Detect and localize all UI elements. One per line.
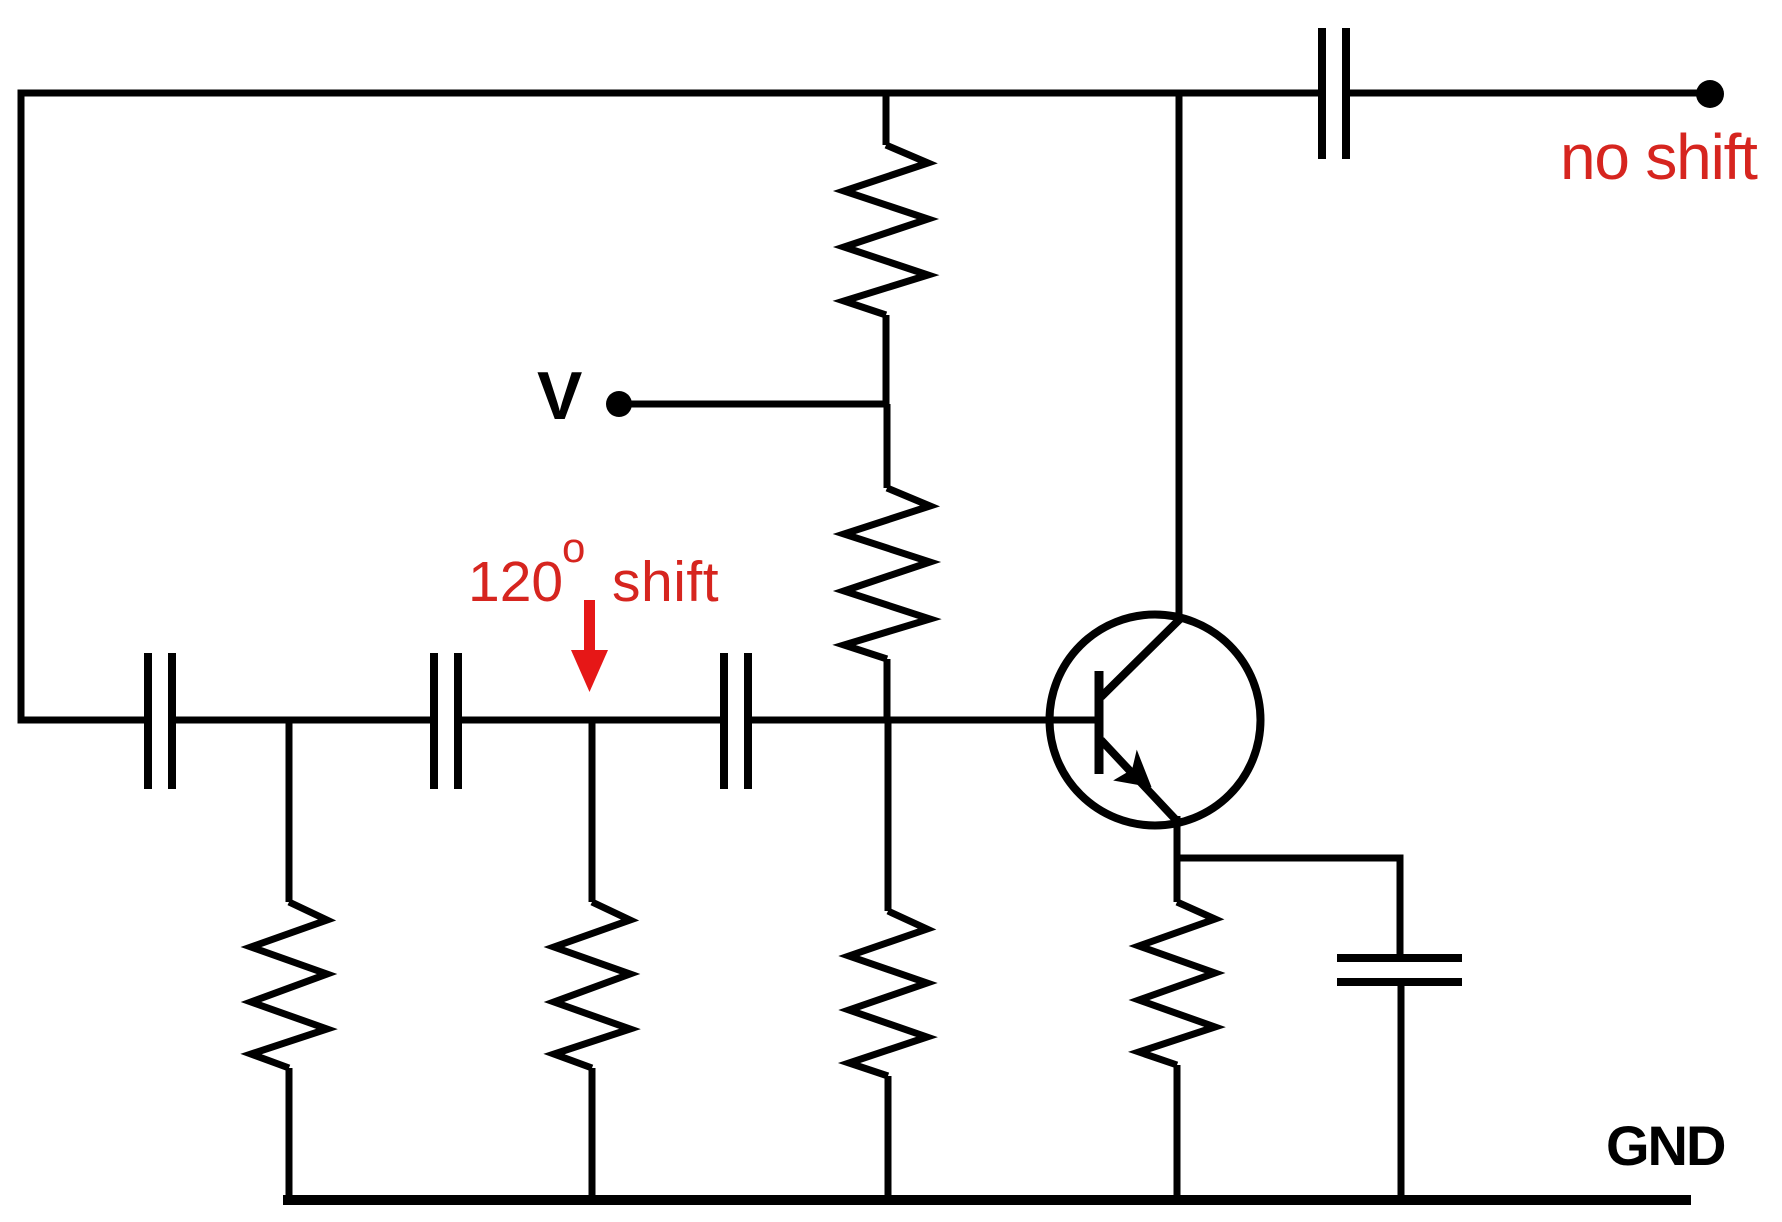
- wire: R1 to ground: [286, 1068, 293, 1200]
- resistor R3: [849, 911, 927, 1076]
- capacitor C5 top plate: [1337, 954, 1462, 962]
- wire: node C lead down to R3: [885, 717, 892, 911]
- wire: base rail C2 to C3: [462, 717, 720, 724]
- capacitor C4 (output coupling) left plate: [1318, 28, 1326, 159]
- resistor R5 (lower bias divider): [844, 488, 930, 659]
- svg-text:o: o: [562, 524, 585, 571]
- node output terminal dot: [1696, 80, 1724, 108]
- capacitor C5 bottom plate: [1337, 978, 1462, 986]
- wire: base rail C3 to transistor base: [752, 717, 1095, 724]
- node V terminal dot: [606, 391, 632, 417]
- transistor Q1 emitter diagonal: [1101, 740, 1176, 820]
- transistor Q1 collector diagonal: [1101, 619, 1180, 697]
- svg-text:no shift: no shift: [1560, 121, 1758, 193]
- svg-text:120: 120: [468, 550, 563, 614]
- wire: emitter to bypass capacitor C5: [1177, 858, 1400, 954]
- resistor R2: [554, 902, 630, 1068]
- wire: base rail C1 to C2: [176, 717, 430, 724]
- transistor Q1 body circle: [1050, 615, 1261, 826]
- wire: collector to top rail: [1176, 93, 1183, 622]
- wire: C5 to ground: [1398, 986, 1405, 1200]
- arrow 120 shift pointer (red): [571, 600, 608, 692]
- svg-text:shift: shift: [612, 550, 719, 614]
- label 120 degree shift (red): [468, 121, 1758, 614]
- capacitor C3 right plate: [744, 653, 752, 789]
- capacitor C2 left plate: [430, 653, 438, 789]
- capacitor C1 left plate: [144, 653, 152, 789]
- capacitor C2 right plate: [454, 653, 462, 789]
- capacitor C3 left plate: [720, 653, 728, 789]
- ground bus: [283, 1195, 1691, 1205]
- wire: R4 to node V: [883, 315, 890, 404]
- resistor R4 (upper bias divider): [844, 145, 928, 315]
- transistor Q1 emitter arrowhead: [1116, 753, 1150, 786]
- wire: node V lead down to R5: [884, 404, 891, 488]
- svg-text:GND: GND: [1606, 1114, 1725, 1177]
- wire: node A lead down to R1: [286, 717, 293, 902]
- capacitor C1 right plate: [168, 653, 176, 789]
- wire: top rail + left rail + segment to C1: [21, 93, 1318, 720]
- wire: R5 to base rail: [884, 659, 891, 720]
- resistor RE (emitter): [1139, 902, 1215, 1065]
- transistor Q1 base bar: [1095, 671, 1104, 774]
- wire: R3 to ground: [885, 1076, 892, 1200]
- capacitor C4 right plate: [1342, 28, 1350, 159]
- wire: RE to ground: [1174, 1065, 1181, 1200]
- wire: emitter lead down to RE: [1174, 816, 1181, 902]
- wire: node B lead down to R2: [589, 717, 596, 902]
- wire: top rail lead down to R4: [883, 93, 890, 145]
- wire: R2 to ground: [589, 1068, 596, 1200]
- wire: top rail from C4 to output terminal: [1350, 90, 1710, 97]
- wire: V terminal to divider node: [630, 401, 886, 408]
- resistor R1: [251, 902, 327, 1068]
- svg-text:V: V: [537, 358, 582, 434]
